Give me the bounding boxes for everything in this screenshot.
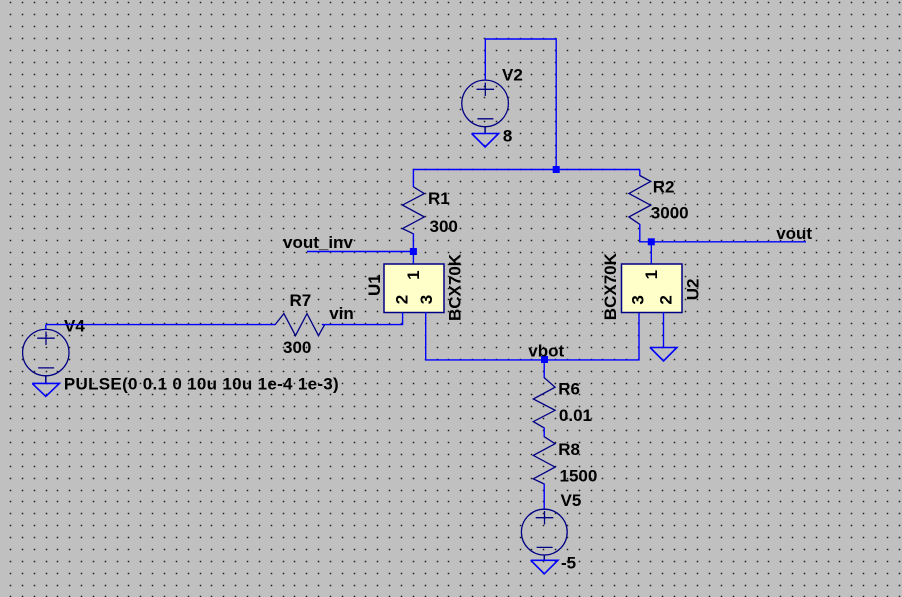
svg-text:V2: V2 bbox=[502, 66, 523, 85]
svg-text:vout: vout bbox=[776, 224, 812, 243]
voltage source V5 bbox=[521, 509, 567, 555]
wire vin right segment bbox=[322, 313, 403, 325]
junction supply bus bbox=[553, 166, 560, 173]
ground below U2 bbox=[650, 348, 677, 362]
svg-text:R7: R7 bbox=[290, 291, 312, 310]
wire V2 top loop bbox=[485, 39, 556, 170]
svg-text:U1: U1 bbox=[365, 274, 384, 296]
wire R2 top lead bbox=[639, 170, 641, 176]
svg-text:U2: U2 bbox=[684, 279, 703, 301]
wire V5 bottom stub bbox=[543, 555, 545, 560]
svg-text:vin: vin bbox=[329, 304, 354, 323]
svg-text:BCX70K: BCX70K bbox=[601, 252, 620, 320]
svg-text:R8: R8 bbox=[558, 440, 580, 459]
ground below V2 bbox=[472, 134, 499, 148]
svg-text:-5: -5 bbox=[561, 554, 576, 573]
svg-text:8: 8 bbox=[503, 126, 512, 145]
svg-text:3000: 3000 bbox=[651, 203, 689, 222]
svg-text:PULSE(0 0.1 0 10u 10u 1e-4 1e-: PULSE(0 0.1 0 10u 10u 1e-4 1e-3) bbox=[64, 375, 339, 394]
junction R2/U2 bbox=[648, 238, 655, 245]
wire vin left segment bbox=[46, 324, 276, 326]
svg-text:2: 2 bbox=[393, 295, 412, 304]
svg-text:0.01: 0.01 bbox=[559, 406, 592, 425]
voltage source V4 bbox=[23, 329, 69, 375]
wire R2 bottom lead bbox=[640, 224, 652, 242]
wire U1 emitter to vbot bbox=[426, 313, 639, 360]
junction node vbot bbox=[541, 356, 548, 363]
wire V4 top stub bbox=[45, 325, 47, 330]
resistor R6 bbox=[533, 378, 555, 428]
wire R8 bottom lead bbox=[543, 484, 545, 510]
wire R6 top lead bbox=[543, 360, 545, 378]
resistor R7 bbox=[275, 314, 325, 336]
wire R6-R8 link bbox=[543, 428, 545, 438]
resistor R2 bbox=[629, 176, 651, 225]
svg-text:R2: R2 bbox=[653, 177, 675, 196]
svg-text:3: 3 bbox=[417, 295, 436, 304]
svg-text:3: 3 bbox=[629, 295, 648, 304]
voltage source V2 bbox=[462, 80, 509, 127]
wire V2 bottom stub bbox=[484, 127, 486, 134]
transistor U1 body bbox=[384, 264, 444, 313]
wire U2 base pin 2 to ground bbox=[663, 313, 665, 348]
resistor R8 bbox=[533, 437, 555, 484]
svg-text:BCX70K: BCX70K bbox=[446, 253, 465, 321]
ground below V5 bbox=[531, 560, 558, 574]
svg-text:vout_inv: vout_inv bbox=[283, 233, 353, 252]
svg-text:R1: R1 bbox=[428, 189, 450, 208]
svg-text:R6: R6 bbox=[558, 380, 580, 399]
ground below V4 bbox=[32, 383, 59, 396]
svg-text:vbot: vbot bbox=[528, 341, 564, 360]
resistor R1 bbox=[403, 187, 425, 234]
transistor U2 body bbox=[622, 264, 683, 313]
wire U1 collector pin 1 bbox=[412, 252, 414, 265]
svg-text:1: 1 bbox=[404, 270, 423, 279]
svg-text:300: 300 bbox=[430, 217, 458, 236]
junction R1/U1 bbox=[410, 248, 417, 255]
svg-text:V4: V4 bbox=[64, 316, 85, 335]
svg-text:2: 2 bbox=[657, 295, 676, 304]
svg-text:1: 1 bbox=[642, 270, 661, 279]
wire node vout_inv bbox=[307, 251, 413, 253]
wire R1 bottom lead bbox=[412, 234, 414, 252]
wire node vout bbox=[651, 241, 806, 243]
svg-text:1500: 1500 bbox=[560, 466, 598, 485]
wire V4 bottom stub bbox=[45, 376, 47, 384]
wire U2 collector pin 1 bbox=[650, 242, 652, 265]
wire R1 top lead bbox=[412, 170, 414, 188]
svg-text:V5: V5 bbox=[561, 491, 582, 510]
wire supply bus bbox=[413, 169, 639, 171]
svg-text:300: 300 bbox=[283, 338, 311, 357]
